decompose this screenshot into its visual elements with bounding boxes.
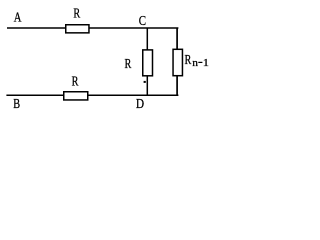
value label R of top series resistor: [73, 5, 80, 21]
svg-text:R: R: [185, 52, 192, 68]
value label R of bottom series resistor: [72, 73, 79, 89]
resistor Rn-1 (right vertical branch): [173, 49, 182, 75]
svg-text:C: C: [139, 13, 146, 28]
wire: top rail from node A through C to top-right corner: [7, 27, 178, 29]
resistor R (top series, between A and C): [66, 25, 89, 33]
resistor R (bottom series, between B and D): [64, 92, 88, 100]
svg-text:A: A: [14, 9, 22, 25]
node A label: [14, 9, 22, 25]
value label Rn-1 of right resistor: [185, 52, 209, 69]
wire: vertical branch from node C down to node D: [146, 28, 148, 96]
svg-text:1: 1: [203, 58, 209, 69]
value label R of shunt resistor: [125, 55, 132, 71]
node D label: [136, 96, 144, 111]
svg-text:B: B: [13, 96, 20, 112]
wire: bottom rail from node B through D to bottom-right corner: [6, 94, 178, 96]
svg-text:R: R: [73, 5, 80, 21]
svg-text:D: D: [136, 96, 144, 111]
svg-text:R: R: [72, 73, 79, 89]
resistor R (vertical shunt between C and D): [143, 50, 153, 76]
svg-text:R: R: [125, 55, 132, 71]
node B label: [13, 96, 20, 112]
node C label: [139, 13, 146, 28]
svg-text:n: n: [192, 57, 198, 69]
wire: right vertical branch joining top and bottom rails: [176, 28, 178, 96]
junction tick on C-D branch below shunt resistor: [144, 81, 146, 83]
